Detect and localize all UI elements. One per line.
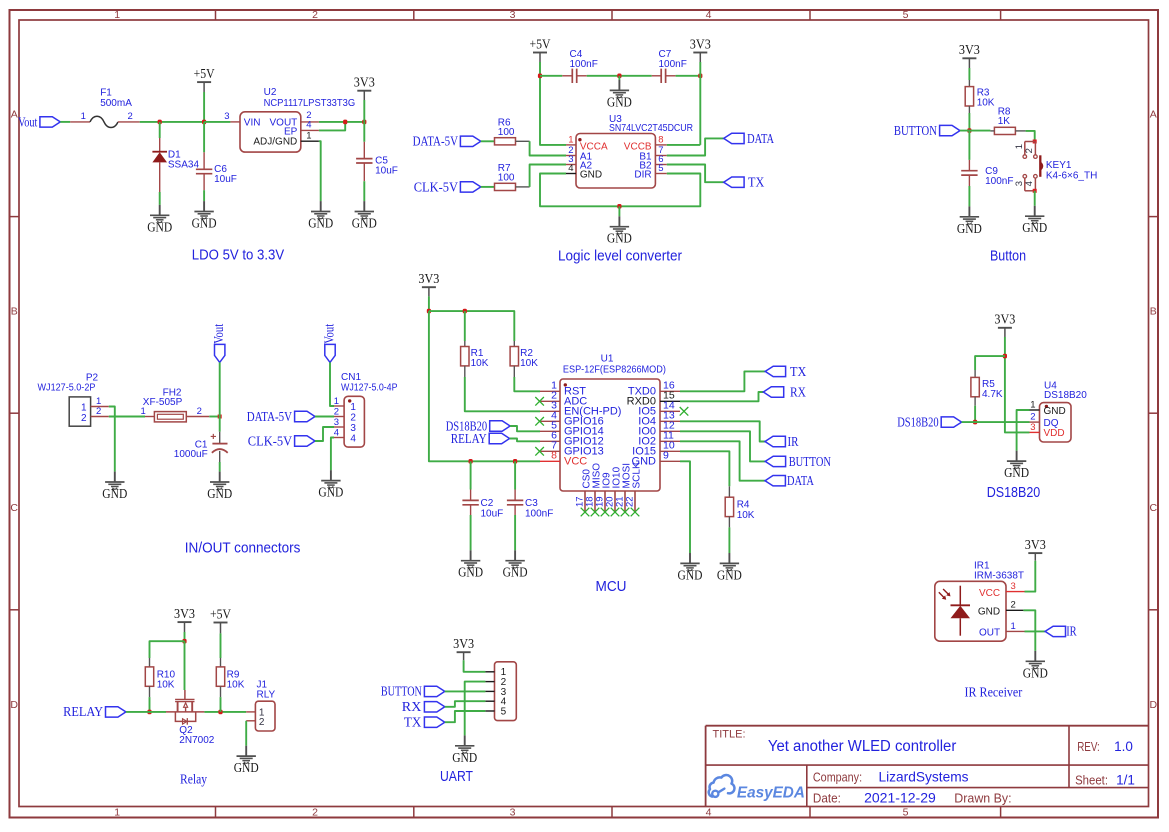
wire node to U2 VIN (204, 121, 240, 123)
port IR (IR receiver) (1045, 624, 1077, 639)
svg-text:3V3: 3V3 (453, 636, 474, 651)
svg-text:1K: 1K (998, 116, 1011, 127)
svg-text:TX: TX (790, 364, 807, 379)
svg-text:1: 1 (1011, 621, 1016, 632)
power 3V3 (MCU) (418, 271, 439, 296)
wire Vout port down to node (219, 362, 221, 416)
svg-text:GND: GND (1022, 220, 1047, 235)
ground (U2 ADJ) (320, 201, 322, 211)
wire C6 to ground (203, 190, 205, 201)
wire 3V3 rail down to U3 VCCB (699, 62, 701, 145)
pin 16 TXD0 (U1) (628, 380, 680, 398)
wire C1 to ground (219, 462, 221, 472)
svg-text:10K: 10K (520, 358, 538, 369)
connector UART header (485, 662, 516, 721)
resistor R1 10K (461, 311, 489, 377)
resistor R9 10K (216, 658, 244, 697)
svg-text:B: B (11, 305, 18, 317)
wire U3 VCCB to 3V3 rail (667, 144, 701, 146)
wire U1 IO4 to IR port (680, 421, 765, 441)
title block (706, 726, 1149, 807)
wire C9 to ground (968, 186, 970, 206)
svg-text:GND: GND (234, 760, 259, 775)
transistor Q2 2N7002 (166, 690, 215, 746)
pin 11 IO2 (U1) (638, 430, 680, 448)
svg-text:+5V: +5V (530, 36, 551, 51)
node junction GND drop (logic top) (617, 74, 621, 79)
svg-text:10K: 10K (227, 680, 245, 691)
wire Q2 source to J1 (204, 711, 246, 713)
svg-text:GND: GND (308, 216, 333, 231)
svg-text:4: 4 (706, 806, 712, 818)
svg-text:GND: GND (1023, 665, 1048, 680)
svg-text:100nF: 100nF (985, 176, 1013, 187)
svg-text:Yet another WLED controller: Yet another WLED controller (768, 738, 956, 755)
svg-text:ESP-12F(ESP8266MOD): ESP-12F(ESP8266MOD) (563, 364, 666, 375)
sensor U4 DS18B20 (1030, 380, 1088, 442)
wire 3V3 to R3 (968, 68, 970, 87)
svg-text:CLK-5V: CLK-5V (248, 433, 293, 448)
svg-text:RELAY: RELAY (63, 704, 103, 719)
svg-text:GND: GND (318, 485, 343, 500)
svg-text:22: 22 (625, 496, 636, 507)
svg-text:10K: 10K (471, 358, 489, 369)
ground (P2) (114, 472, 116, 482)
svg-text:1: 1 (350, 402, 356, 413)
pin 13 IO4 (U1) (638, 410, 680, 428)
node junction at C6 (202, 120, 206, 125)
power +5V (relay) (210, 606, 231, 633)
svg-text:1: 1 (141, 406, 146, 417)
pin 22 SCLK (U1) (625, 462, 643, 511)
svg-text:9: 9 (663, 450, 669, 462)
wire U1 RXD0 to RX port (680, 392, 763, 401)
svg-text:TITLE:: TITLE: (713, 728, 746, 740)
wire R9 to RELAY out net (220, 697, 222, 712)
svg-text:1: 1 (1030, 399, 1035, 410)
port IR (MCU) (765, 434, 799, 449)
node junction C2 (469, 459, 473, 464)
wire FH2 to node (209, 416, 219, 418)
svg-text:IR Receiver: IR Receiver (965, 686, 1023, 701)
svg-text:100: 100 (498, 127, 515, 138)
svg-text:U1: U1 (601, 354, 614, 365)
wire 3V3 to node (363, 100, 365, 122)
resistor R3 10K (965, 87, 995, 109)
svg-text:10K: 10K (977, 97, 995, 108)
svg-text:Button: Button (990, 248, 1026, 264)
svg-text:Sheet:: Sheet: (1075, 774, 1108, 788)
svg-text:Logic level converter: Logic level converter (558, 249, 682, 265)
pin 4 GPIO16 (U1) (540, 410, 604, 428)
svg-text:VDD: VDD (1044, 428, 1065, 439)
wire U2 EP up to VOUT net (319, 122, 345, 130)
power 3V3 (UART) (453, 636, 474, 660)
svg-text:Relay: Relay (180, 773, 207, 788)
wire 3V3 to UART pin1 (464, 660, 486, 672)
svg-text:NCP1117LPST33T3G: NCP1117LPST33T3G (264, 98, 356, 109)
no-connect X U1 pin7 (535, 447, 544, 456)
resistor R10 10K (145, 658, 175, 697)
power 3V3 (LDO) (354, 75, 375, 101)
wire DATA-5V to CN1 pin2 (315, 416, 334, 418)
node junction DS18B20 net (973, 420, 977, 425)
ground (U1 pin9) (689, 553, 691, 563)
svg-text:2021-12-29: 2021-12-29 (864, 790, 936, 806)
svg-text:IRM-3638T: IRM-3638T (974, 570, 1024, 581)
svg-text:3V3: 3V3 (1025, 537, 1046, 552)
svg-text:MCU: MCU (596, 579, 627, 595)
pin 5 GPIO14 (U1) (540, 420, 604, 438)
fuse holder FH2 XF-505P (143, 388, 210, 422)
svg-text:2: 2 (350, 412, 356, 423)
svg-text:100nF: 100nF (525, 509, 553, 520)
node junction 3V3 left (427, 309, 431, 314)
port TX (logic) (724, 175, 765, 190)
svg-text:3V3: 3V3 (959, 42, 980, 57)
svg-text:4: 4 (350, 433, 356, 444)
svg-text:GND: GND (978, 606, 1000, 617)
port DATA-5V (CN1) (247, 409, 315, 424)
wire U1 IO2 to DATA port (680, 441, 765, 480)
svg-text:2: 2 (96, 406, 101, 417)
svg-text:+5V: +5V (194, 66, 215, 81)
wire +5V to node (203, 92, 205, 122)
module U1 ESP-12F(ESP8266MOD) (560, 354, 666, 491)
EasyEDA logo (709, 775, 805, 801)
wire RX to UART pin4 (445, 701, 486, 707)
node junction C3 (513, 459, 517, 464)
svg-text:5: 5 (903, 9, 909, 21)
ground (C3) (514, 550, 516, 560)
svg-text:DATA-5V: DATA-5V (247, 409, 293, 424)
no-connect X U1 pin14 (680, 407, 689, 416)
svg-text:ADJ/GND: ADJ/GND (253, 137, 297, 148)
connector CN1 WJ127-5.0-4P (334, 372, 398, 447)
svg-text:8: 8 (551, 450, 557, 462)
wire D1 to ground (159, 192, 161, 205)
svg-text:C3: C3 (525, 498, 538, 509)
svg-text:RX: RX (402, 699, 422, 714)
svg-text:2: 2 (197, 406, 202, 417)
wire R4 to ground (728, 527, 730, 553)
ground (IR1) (1034, 651, 1036, 661)
svg-text:RELAY: RELAY (451, 431, 487, 446)
wire U2 ADJ to ground (319, 141, 321, 201)
port CLK-5V (CN1) (248, 433, 315, 448)
port TX (UART) (404, 715, 445, 730)
svg-text:3: 3 (510, 806, 516, 818)
wire KEY1 to ground (1034, 191, 1036, 206)
no-connect X U1 pin20 (611, 508, 620, 517)
svg-text:WJ127-5.0-2P: WJ127-5.0-2P (38, 382, 96, 393)
svg-text:Date:: Date: (813, 792, 841, 806)
power 3V3 (relay) (174, 606, 195, 632)
ground (D1) (159, 205, 161, 215)
resistor R6 100 (481, 117, 530, 144)
svg-text:LDO 5V to 3.3V: LDO 5V to 3.3V (192, 248, 285, 264)
svg-text:GND: GND (147, 219, 172, 234)
svg-text:2: 2 (1024, 148, 1035, 153)
svg-text:2: 2 (312, 9, 318, 21)
svg-text:C2: C2 (481, 498, 494, 509)
wire DS18B20 port to U4 DQ (962, 421, 1030, 423)
node junction 3V3/R5 (1003, 354, 1007, 359)
svg-text:GND: GND (1004, 465, 1029, 480)
svg-text:CN1: CN1 (341, 372, 361, 383)
ground (C5) (363, 201, 365, 211)
power 3V3 (DS18B20) (994, 312, 1015, 337)
pin 19 IO9 (U1) (595, 472, 613, 511)
resistor R4 10K (725, 486, 755, 527)
svg-text:2N7002: 2N7002 (179, 735, 214, 746)
wire P2 pin1 to ground (109, 407, 115, 472)
wire U2 VOUT to 3V3 (319, 121, 364, 123)
svg-text:A: A (1150, 109, 1157, 121)
wire Vout port to CN1 pin1 (330, 362, 334, 406)
svg-text:IR: IR (1066, 624, 1077, 639)
wire U3 B1 to DATA port (667, 138, 724, 155)
pin 10 IO15 (U1) (632, 440, 680, 458)
svg-text:5: 5 (658, 163, 663, 174)
power 3V3 (logic) (690, 36, 711, 62)
svg-text:2: 2 (128, 111, 133, 122)
svg-text:1.0: 1.0 (1114, 739, 1133, 754)
svg-text:DATA-5V: DATA-5V (413, 134, 459, 149)
port DATA (MCU) (765, 473, 814, 488)
wire R6 to U3 A1 (530, 141, 566, 155)
node junction RELAY/R10 (147, 710, 151, 715)
wire Vout to fuse F1 (60, 121, 90, 123)
svg-text:2: 2 (312, 806, 318, 818)
svg-text:A: A (11, 109, 18, 121)
svg-text:GND: GND (207, 486, 232, 501)
svg-text:10uF: 10uF (214, 174, 237, 185)
regulator U2 NCP1117LPST33T3G (240, 87, 355, 152)
svg-text:Vout: Vout (18, 114, 37, 129)
svg-text:+: + (210, 431, 216, 443)
wire C4 to C7 (587, 75, 652, 77)
wire DS18B20 to U1 GPIO14 (510, 426, 540, 431)
svg-text:OUT: OUT (979, 627, 1000, 638)
capacitor C3 100nF (507, 461, 553, 519)
node junction EP/VOUT (343, 120, 347, 125)
no-connect X U1 pin22 (631, 508, 640, 517)
wire R1 to U1 EN (465, 377, 540, 411)
pin 21 MOSI (U1) (615, 463, 633, 511)
wire 3V3 down to VDD (1005, 337, 1030, 432)
ground (C9) (968, 206, 970, 216)
svg-text:GND: GND (452, 750, 477, 765)
ground (C1) (219, 472, 221, 482)
svg-text:4: 4 (568, 163, 573, 174)
wire U1 IO15 to R4 (680, 451, 729, 486)
wire R10 to RELAY net (149, 697, 151, 712)
svg-text:U2: U2 (264, 87, 277, 98)
svg-text:10uF: 10uF (375, 166, 398, 177)
ground (R4) (728, 553, 730, 563)
wire U1 IO0 to BUTTON port (680, 431, 765, 461)
connector J1 RLY (246, 679, 275, 731)
wire 3V3 node to Q2 drain (184, 641, 186, 690)
svg-text:LizardSystems: LizardSystems (879, 768, 969, 784)
svg-text:3V3: 3V3 (994, 312, 1015, 327)
svg-text:GND: GND (352, 216, 377, 231)
svg-text:DS18B20: DS18B20 (1044, 390, 1087, 401)
svg-text:3V3: 3V3 (418, 271, 439, 286)
wire 3V3 top rail to R2 (429, 311, 514, 341)
wire UART pin2 to ground (465, 682, 486, 736)
wire 3V3 to node (184, 632, 186, 641)
svg-text:GND: GND (192, 216, 217, 231)
wire U3 B2 to TX port (667, 165, 724, 183)
port RX (MCU) (763, 384, 806, 399)
pin 7 GPIO13 (U1) (540, 440, 604, 458)
svg-text:GND: GND (458, 565, 483, 580)
port Vout (LDO input) (18, 114, 60, 129)
svg-text:2: 2 (259, 717, 265, 728)
wire U1 TXD0 to TX port (680, 371, 765, 391)
pin 3 EN(CH-PD) (U1) (540, 400, 621, 418)
no-connect X U1 pin4 (535, 417, 544, 426)
connector P2 WJ127-5.0-2P (38, 372, 109, 426)
wire R8 to KEY1 (1026, 131, 1035, 142)
port BUTTON (MCU) (765, 454, 831, 469)
power +5V (logic) (530, 36, 551, 62)
svg-text:3: 3 (1011, 581, 1016, 592)
wire R7 to U3 A2 (530, 165, 566, 187)
svg-text:B: B (1150, 305, 1157, 317)
svg-text:4: 4 (1024, 181, 1035, 186)
svg-text:GND: GND (102, 486, 127, 501)
svg-text:4.7K: 4.7K (982, 389, 1003, 400)
wire TX to UART pin5 (445, 711, 486, 722)
power +5V (LDO) (194, 66, 215, 92)
node junction 3V3/C7 (698, 74, 702, 79)
port BUTTON (button) (894, 123, 960, 138)
wire IR1 GND to ground (1023, 610, 1035, 651)
wire P2 pin2 to FH2 (109, 416, 145, 418)
wire C7 to 3V3 (676, 75, 701, 77)
svg-text:3: 3 (224, 111, 229, 122)
port DS18B20 (MCU) (446, 418, 510, 433)
svg-text:GND: GND (580, 170, 602, 181)
svg-text:UART: UART (440, 769, 473, 785)
port RELAY (MCU) (451, 431, 510, 446)
svg-text:10uF: 10uF (481, 509, 504, 520)
svg-text:GND: GND (607, 231, 632, 246)
node square KEY1 top (1033, 140, 1037, 144)
port CLK-5V (logic) (414, 179, 481, 194)
port TX (MCU) (765, 364, 806, 379)
svg-text:GND: GND (607, 94, 632, 109)
ground (U4) (1016, 451, 1018, 461)
svg-text:500mA: 500mA (100, 98, 132, 109)
svg-text:Vout: Vout (322, 324, 337, 344)
wire U4 GND to ground (1017, 410, 1030, 451)
svg-text:SCLK: SCLK (631, 462, 642, 488)
svg-text:VCC: VCC (979, 588, 1000, 599)
level shifter U3 SN74LVC2T45DCUR (566, 114, 693, 188)
svg-text:REV:: REV: (1077, 740, 1100, 754)
wire R3 to node BUTTON (968, 106, 970, 131)
svg-text:DS18B20: DS18B20 (897, 414, 939, 429)
capacitor C5 10uF (356, 122, 398, 181)
svg-text:SSA34: SSA34 (168, 160, 200, 171)
svg-text:3V3: 3V3 (690, 36, 711, 51)
node junction at D1 (158, 120, 162, 125)
wire R2 to U1 RST (514, 377, 540, 391)
pin 20 IO10 (U1) (605, 466, 623, 511)
port DS18B20 (sensor) (897, 414, 961, 429)
wire +5V rail down to U3 VCCA (540, 62, 566, 145)
no-connect X U1 pin18 (591, 508, 600, 517)
svg-text:2: 2 (81, 413, 87, 424)
node junction GND loop (617, 204, 621, 209)
svg-text:1/1: 1/1 (1116, 773, 1135, 788)
power 3V3 (button) (959, 42, 980, 68)
no-connect X U1 pin19 (601, 508, 610, 517)
svg-text:C: C (1150, 502, 1158, 514)
svg-text:10K: 10K (157, 680, 175, 691)
node junction BUTTON (967, 128, 971, 133)
svg-text:GND: GND (678, 567, 703, 582)
wire C2 to ground (470, 515, 472, 550)
wire 3V3 rail down VCC (429, 311, 540, 461)
wire 3V3 to IR1 VCC (1025, 561, 1036, 592)
ground (logic bypass) (607, 76, 632, 110)
pin 14 IO5 (U1) (638, 400, 680, 418)
svg-text:2: 2 (1011, 600, 1016, 611)
capacitor C6 10uF (196, 122, 237, 190)
no-connect X U1 pin17 (581, 508, 590, 517)
pushbutton KEY1 K4-6x6_TH (1023, 142, 1097, 191)
svg-text:DATA: DATA (787, 473, 814, 488)
svg-text:EasyEDA: EasyEDA (737, 785, 805, 802)
svg-text:1: 1 (81, 403, 87, 414)
resistor R7 100 (481, 163, 530, 191)
svg-text:TX: TX (748, 175, 765, 190)
wire BUTTON node to R8 (960, 130, 990, 132)
node square Vout/C1 (218, 415, 222, 419)
svg-text:Company:: Company: (813, 770, 862, 784)
wire C3 to ground (514, 515, 516, 550)
wire CN1 pin4 to ground (331, 438, 334, 471)
svg-text:DIR: DIR (634, 170, 651, 181)
svg-text:1: 1 (306, 131, 311, 142)
no-connect X U1 pin2 (535, 397, 544, 406)
svg-text:BUTTON: BUTTON (789, 454, 831, 469)
no-connect X U1 pin21 (621, 508, 630, 517)
svg-text:3: 3 (510, 9, 516, 21)
svg-text:1: 1 (81, 111, 86, 122)
port BUTTON (UART) (381, 684, 445, 699)
svg-text:RX: RX (790, 384, 806, 399)
svg-text:+5V: +5V (210, 606, 231, 621)
svg-text:8: 8 (658, 135, 663, 146)
pin 18 MISO (U1) (585, 463, 603, 512)
wire IR1 OUT to IR port (1025, 630, 1046, 632)
svg-text:3: 3 (334, 417, 339, 428)
svg-text:GND: GND (503, 565, 528, 580)
svg-text:100nF: 100nF (570, 59, 598, 70)
ground (U3) (607, 206, 632, 245)
pin 2 ADC (U1) (540, 390, 587, 408)
ground (C2) (470, 550, 472, 560)
svg-text:BUTTON: BUTTON (381, 684, 422, 699)
wire U3 GND loop to DIR (540, 174, 700, 207)
svg-text:5: 5 (501, 706, 507, 717)
